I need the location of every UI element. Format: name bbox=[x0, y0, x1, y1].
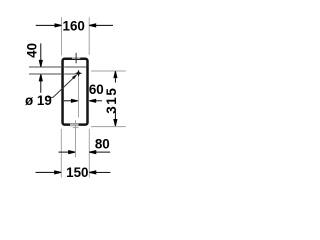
svg-text:150: 150 bbox=[66, 165, 88, 180]
svg-text:80: 80 bbox=[95, 137, 110, 152]
svg-text:40: 40 bbox=[24, 43, 39, 58]
svg-text:160: 160 bbox=[63, 18, 85, 33]
svg-text:60: 60 bbox=[89, 82, 104, 97]
svg-text:315: 315 bbox=[104, 87, 119, 114]
svg-text:ø 19: ø 19 bbox=[25, 93, 52, 108]
